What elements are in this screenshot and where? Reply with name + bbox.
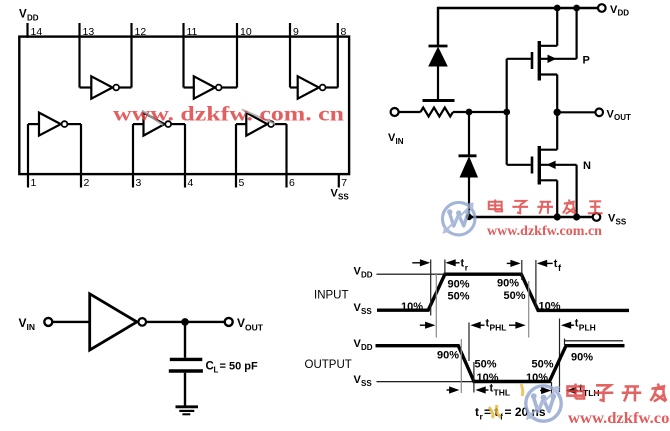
capacitor CL bottom plate xyxy=(169,369,203,372)
NMOS substrate stub xyxy=(541,164,577,166)
output VSS label xyxy=(354,374,373,388)
tTLH right arrow xyxy=(566,387,578,394)
watermark chars (schematic) xyxy=(489,199,603,213)
marker output rise 10% xyxy=(551,382,553,394)
node dot VDD-source xyxy=(554,5,561,12)
inverter D bubble xyxy=(62,121,68,127)
tf left arrow xyxy=(507,260,521,267)
pin 6 stub xyxy=(285,124,287,187)
resistor R1 zigzag xyxy=(421,108,453,117)
svg-text:N: N xyxy=(583,160,591,172)
svg-text:t: t xyxy=(475,405,479,419)
inverter A bubble xyxy=(113,85,119,91)
CL value label xyxy=(206,361,258,375)
svg-text:IN: IN xyxy=(27,322,36,332)
NMOS source stub xyxy=(541,179,558,181)
svg-text:8: 8 xyxy=(341,26,347,38)
wire inverter to VOUT xyxy=(147,321,225,323)
VIN label (test circuit) xyxy=(19,316,36,332)
svg-text:INPUT: INPUT xyxy=(314,290,349,302)
svg-text:5: 5 xyxy=(239,177,245,189)
input VDD thin reference line xyxy=(377,273,444,275)
VDD label xyxy=(610,4,629,18)
svg-text:www.dzkfw.com.cn: www.dzkfw.com.cn xyxy=(487,224,602,239)
wire resistor to gate bus xyxy=(453,111,507,113)
inverter D output wire (pin2) xyxy=(68,123,81,125)
input VSS label xyxy=(354,302,373,316)
PMOS substrate arrow xyxy=(548,55,557,63)
VDD rail left corner wire xyxy=(437,7,439,46)
VSS label (pin 7) xyxy=(331,188,350,202)
diode D2 upper wire xyxy=(468,112,470,156)
svg-text:6: 6 xyxy=(289,177,295,189)
tPHL right arrow xyxy=(509,322,526,329)
output VSS thin reference line xyxy=(377,381,475,383)
PMOS channel bar xyxy=(538,41,541,81)
inverter F triangle xyxy=(246,113,267,136)
inverter B input wire (pin11) xyxy=(184,86,194,88)
diode D1 triangle xyxy=(429,48,447,66)
marker input rise 90% xyxy=(444,260,446,275)
pin 12 stub xyxy=(130,23,132,88)
inverter D input wire (pin1) xyxy=(28,123,39,125)
VSS label (schematic) xyxy=(608,213,627,227)
NMOS drain to output wire xyxy=(556,112,558,149)
NMOS substrate arrow xyxy=(547,161,556,169)
svg-text:P: P xyxy=(583,55,590,67)
input waveform xyxy=(377,274,629,310)
svg-text:90%: 90% xyxy=(448,279,470,291)
watermark logo (waveforms) xyxy=(526,386,561,421)
svg-text:V: V xyxy=(237,316,245,330)
svg-text:OUT: OUT xyxy=(245,323,264,333)
gate bus vertical wire xyxy=(506,59,508,165)
tTHL label xyxy=(490,383,511,398)
tTLH left arrow xyxy=(540,387,551,394)
wire capacitor to ground xyxy=(184,373,186,406)
inverter A output wire (pin12) xyxy=(120,86,132,88)
gray watermark stroke over inverter E xyxy=(142,111,163,126)
svg-text:1: 1 xyxy=(31,177,37,189)
svg-text:50%: 50% xyxy=(475,359,497,371)
VIN terminal (test circuit) xyxy=(44,318,52,326)
PMOS drain stub xyxy=(541,73,558,75)
inverter A triangle xyxy=(91,76,112,98)
svg-text:OUT: OUT xyxy=(614,113,631,122)
diode D1 anode wide bar xyxy=(423,99,455,102)
NMOS gate wire xyxy=(507,164,531,166)
svg-text:THL: THL xyxy=(494,388,511,398)
pin 11 stub xyxy=(182,23,184,88)
test inverter triangle xyxy=(90,294,137,350)
svg-text:DD: DD xyxy=(618,9,630,18)
watermark logo (schematic) xyxy=(442,202,474,234)
NMOS channel bar xyxy=(538,146,541,185)
diode D2 cathode bar xyxy=(459,154,477,157)
inverter B bubble xyxy=(216,85,222,91)
svg-text:SS: SS xyxy=(361,379,372,388)
wire VIN to inverter xyxy=(53,321,90,323)
svg-text:V: V xyxy=(19,9,27,21)
marker output fall 90% (gray) xyxy=(460,339,462,393)
PMOS source stub xyxy=(541,45,558,47)
svg-text:2: 2 xyxy=(84,177,90,189)
gray watermark stroke over inverter F xyxy=(242,110,275,125)
VDD rail wire xyxy=(438,7,598,9)
svg-text:11: 11 xyxy=(187,26,198,38)
VIN terminal xyxy=(391,108,399,116)
PMOS gate wire xyxy=(507,58,531,60)
marker input rise 10% xyxy=(430,260,432,316)
svg-text:50%: 50% xyxy=(532,359,554,371)
input VDD label xyxy=(354,266,373,280)
node dot VSS-substrate xyxy=(573,213,580,220)
ground symbol xyxy=(176,407,199,415)
VIN label xyxy=(388,132,404,146)
inverter E output wire (pin4) xyxy=(172,123,185,125)
PMOS source to VDD wire xyxy=(556,8,558,46)
svg-text:www. dzkfw. com. cn: www. dzkfw. com. cn xyxy=(113,102,344,126)
pin 8 stub xyxy=(337,23,339,88)
svg-text:DD: DD xyxy=(361,343,373,352)
pin 4 stub xyxy=(184,124,186,187)
node dot VDD-substrate xyxy=(573,5,580,12)
svg-text:10%: 10% xyxy=(477,372,499,384)
svg-text:50%: 50% xyxy=(504,290,526,302)
marker output fall 10% xyxy=(473,362,475,393)
inverter F output wire (pin6) xyxy=(274,123,286,125)
svg-text:OUTPUT: OUTPUT xyxy=(305,359,352,371)
svg-text:14: 14 xyxy=(31,26,43,38)
output VDD right thin line xyxy=(564,340,623,342)
VOUT terminal xyxy=(595,109,603,117)
tr label xyxy=(461,258,469,273)
tr right arrow xyxy=(445,259,459,266)
VDD terminal xyxy=(598,4,606,12)
wire output node to VOUT terminal xyxy=(557,111,595,113)
diode D1 lower wire xyxy=(437,66,439,99)
svg-text:DD: DD xyxy=(27,14,39,23)
svg-text:90%: 90% xyxy=(437,350,459,362)
pin 14 stub xyxy=(26,23,28,38)
node dot gate bus junction xyxy=(503,109,510,116)
tPLH label xyxy=(575,318,596,333)
capacitor CL top plate xyxy=(170,358,203,361)
VOUT terminal (test circuit) xyxy=(225,318,233,326)
svg-text:L: L xyxy=(214,366,219,375)
yellow watermark stroke 1 xyxy=(489,405,501,418)
svg-text:V: V xyxy=(19,316,27,330)
inverter F input wire (pin5) xyxy=(236,123,246,125)
output node dot xyxy=(554,109,561,116)
output node dot (test circuit) xyxy=(181,318,189,326)
svg-text:SS: SS xyxy=(361,307,372,316)
yellow watermark stroke 2 xyxy=(521,384,523,396)
svg-text:12: 12 xyxy=(135,26,147,38)
svg-text:DD: DD xyxy=(361,271,373,280)
tTLH label xyxy=(579,383,600,398)
pin 13 stub xyxy=(78,23,80,88)
diode D2 triangle xyxy=(460,157,477,177)
svg-text:PHL: PHL xyxy=(490,323,507,333)
svg-text:90%: 90% xyxy=(571,352,593,364)
VSS rail wire xyxy=(469,216,593,218)
svg-text:SS: SS xyxy=(338,193,349,202)
node dot input-diode junction xyxy=(466,109,473,116)
VOUT label (test circuit) xyxy=(237,316,264,333)
svg-text:9: 9 xyxy=(293,26,299,38)
node dot VSS-diode xyxy=(466,214,472,220)
watermark chars (waveforms) xyxy=(567,384,666,402)
node dot VSS-source xyxy=(554,213,561,220)
pin 7 stub xyxy=(338,174,340,187)
PMOS substrate to VDD wire xyxy=(575,8,577,59)
svg-text:3: 3 xyxy=(136,177,142,189)
tPHL row left arrow xyxy=(420,322,436,329)
svg-text:90%: 90% xyxy=(497,278,519,290)
tf label xyxy=(554,258,562,273)
diode D2 lower wire xyxy=(468,177,470,217)
marker output fall 50% xyxy=(468,323,470,362)
output waveform xyxy=(376,346,625,382)
marker output rise 50% xyxy=(559,319,561,393)
svg-text:10%: 10% xyxy=(539,300,561,312)
pin 10 stub xyxy=(236,23,238,88)
inverter E input wire (pin3) xyxy=(133,123,144,125)
svg-text:10%: 10% xyxy=(401,301,423,313)
marker input fall 90% xyxy=(521,260,523,280)
VDD label (pin 14) xyxy=(19,9,39,23)
svg-text:7: 7 xyxy=(341,177,347,189)
svg-text:10%: 10% xyxy=(526,372,548,384)
diode D1 cathode bar xyxy=(429,45,448,48)
svg-text:13: 13 xyxy=(83,26,95,38)
PMOS substrate stub xyxy=(541,58,577,60)
inverter C input wire (pin9) xyxy=(290,86,298,88)
IC package box U1 xyxy=(19,37,349,175)
inverter A input wire (pin13) xyxy=(80,86,92,88)
inverter F bubble xyxy=(268,121,274,127)
inverter D triangle xyxy=(39,113,61,136)
NMOS gate bar xyxy=(531,157,534,174)
marker output rise 90% tick xyxy=(564,339,566,346)
NMOS substrate to VSS wire xyxy=(575,165,577,217)
svg-text:www.dzkfw.com.cn: www.dzkfw.com.cn xyxy=(568,410,670,427)
svg-text:10: 10 xyxy=(240,26,252,38)
VSS terminal xyxy=(593,213,601,221)
tPLH left arrow xyxy=(561,322,574,329)
output VDD label xyxy=(354,338,373,352)
test inverter bubble xyxy=(138,318,146,326)
inverter E bubble xyxy=(165,121,171,127)
pin 2 stub xyxy=(80,124,82,187)
NMOS drain stub xyxy=(541,149,558,151)
tTHL right arrow xyxy=(475,386,488,393)
tr left arrow xyxy=(412,259,430,266)
svg-text:PLH: PLH xyxy=(579,323,596,333)
pin 3 stub xyxy=(132,124,134,187)
tTHL left arrow xyxy=(447,386,460,393)
marker input rise 50% (gray) xyxy=(435,273,437,338)
wire VIN to resistor xyxy=(399,111,421,113)
pin 9 stub xyxy=(289,23,291,88)
marker input fall 10% xyxy=(535,260,537,308)
tr=tf=20ns note xyxy=(475,405,546,422)
svg-text:= 50 pF: = 50 pF xyxy=(220,361,258,373)
tPHL left arrow xyxy=(470,322,484,329)
inverter C triangle xyxy=(298,76,319,98)
wire node to capacitor xyxy=(184,322,186,358)
marker input fall 50% (gray) xyxy=(528,281,530,338)
inverter C bubble xyxy=(320,85,326,91)
svg-text:4: 4 xyxy=(188,177,194,189)
inverter C output wire (pin8) xyxy=(326,86,338,88)
VOUT label xyxy=(607,109,632,123)
inverter B triangle xyxy=(194,76,215,98)
inverter E triangle xyxy=(144,113,165,136)
tf right arrow xyxy=(537,260,553,267)
PMOS drain to output wire xyxy=(556,75,558,113)
PMOS gate bar xyxy=(531,52,534,69)
svg-text:50%: 50% xyxy=(448,291,470,303)
tPHL label xyxy=(486,318,507,333)
pin 5 stub xyxy=(235,124,237,187)
svg-text:IN: IN xyxy=(396,137,404,146)
svg-text:SS: SS xyxy=(616,218,627,227)
NMOS source to VSS wire xyxy=(556,180,558,217)
inverter B output wire (pin10) xyxy=(222,86,237,88)
pin 1 stub xyxy=(27,124,29,187)
